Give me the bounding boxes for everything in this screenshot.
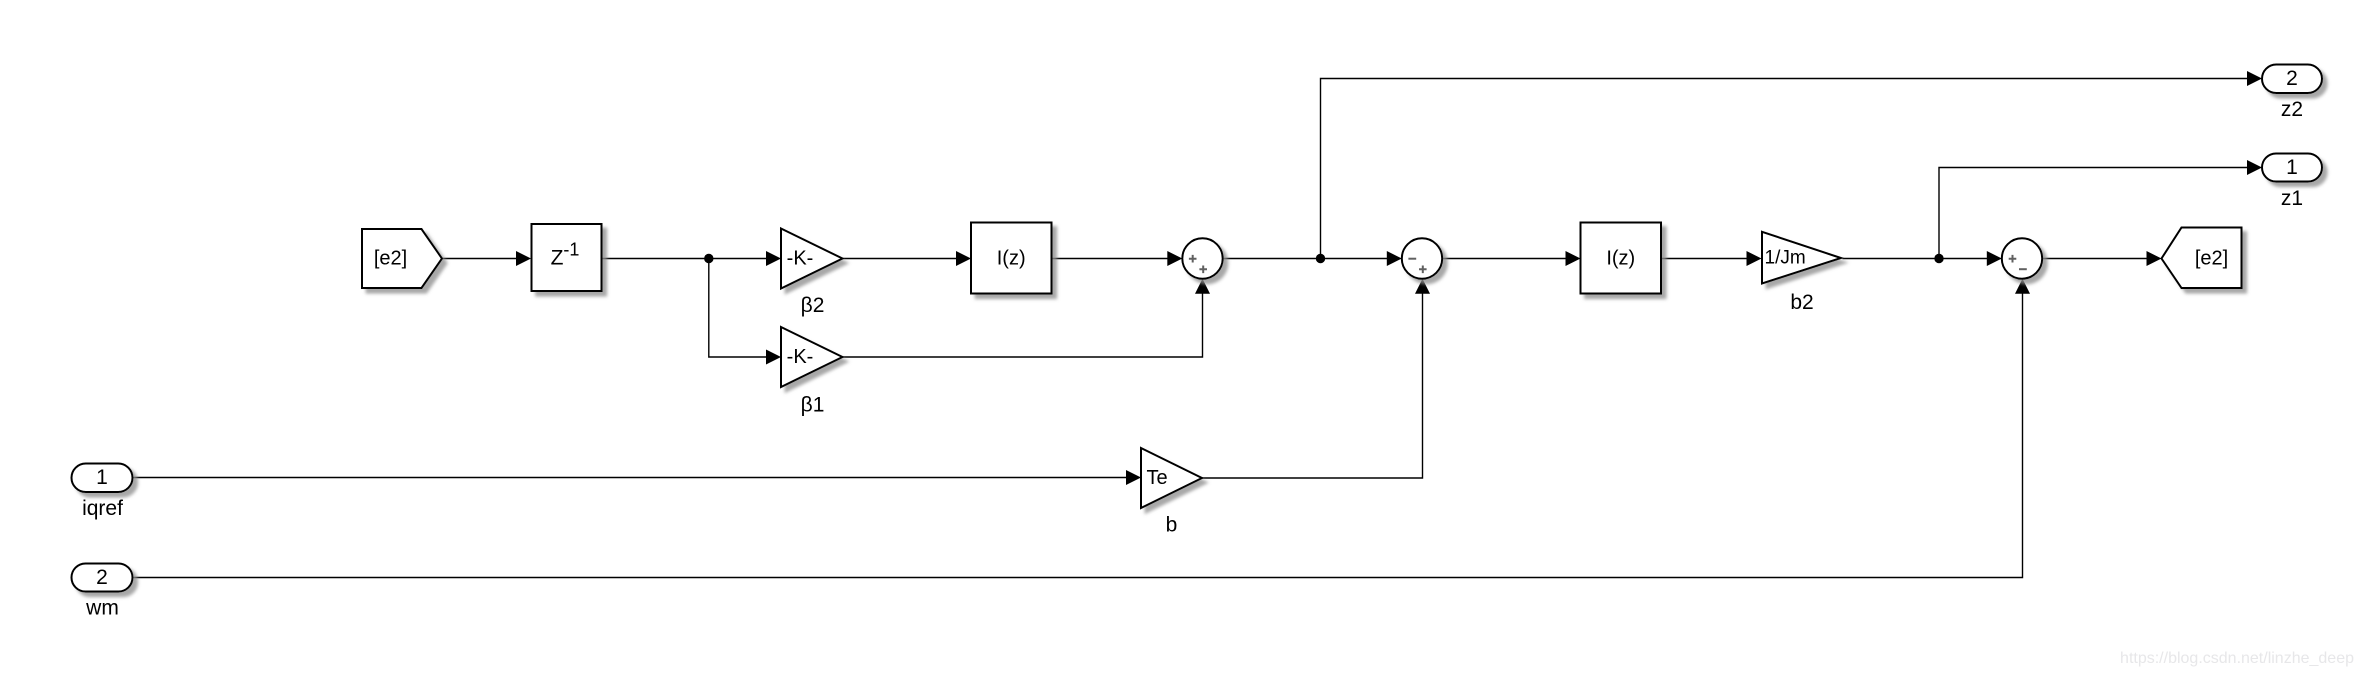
wire sum3 to Goto [e2]: [2042, 251, 2161, 266]
svg-text:1: 1: [2286, 156, 2298, 179]
wire From [e2] to unit delay: [442, 251, 531, 266]
svg-text:β2: β2: [801, 294, 825, 317]
wire sum1 to sum2 with branch junction: [1223, 251, 1402, 266]
From tag [e2]: [362, 229, 442, 288]
outport 2: [2262, 65, 2322, 94]
wire inport wm to sum3 bottom: [133, 279, 2030, 578]
gain B1 (-K-): [781, 327, 843, 387]
inport 2 wm: [72, 564, 133, 592]
svg-text:β1: β1: [801, 394, 825, 417]
svg-text:z2: z2: [2281, 98, 2303, 121]
svg-text:1/Jm: 1/Jm: [1765, 247, 1806, 268]
sum2 sign plus bottom: [1419, 266, 1427, 274]
svg-text:2: 2: [2286, 67, 2298, 90]
wire unit delay to junction to gain B2: [602, 251, 782, 266]
wire gain B2 to I(z) 1: [843, 251, 972, 266]
discrete integrator I(z) 2: [1581, 223, 1662, 294]
wire I(z) 2 to gain 1/Jm: [1661, 251, 1762, 266]
outport 1: [2262, 154, 2322, 182]
wire sum2 to I(z) 2: [1442, 251, 1580, 266]
junction node z2 branch: [1316, 254, 1325, 263]
gain 1/Jm: [1762, 232, 1841, 284]
svg-text:-K-: -K-: [787, 248, 814, 270]
svg-text:I(z): I(z): [1606, 248, 1635, 270]
gain Te: [1141, 448, 1202, 508]
svg-text:[e2]: [e2]: [2195, 248, 2228, 270]
svg-text:b2: b2: [1790, 291, 1813, 314]
junction node after unit delay: [704, 254, 713, 263]
svg-text:iqref: iqref: [82, 497, 123, 520]
wire branch up to outport z1: [1939, 160, 2262, 259]
inport 1 iqref: [72, 464, 133, 493]
svg-text:1: 1: [96, 466, 108, 489]
Goto tag [e2]: [2162, 228, 2242, 289]
sum1 sign plus left: [1189, 255, 1197, 263]
svg-text:I(z): I(z): [997, 248, 1026, 270]
unit delay block Z^-1: [532, 224, 602, 291]
gain B2 (-K-): [781, 229, 843, 289]
wire gain Te to sum2 bottom: [1202, 279, 1430, 478]
svg-text:[e2]: [e2]: [374, 248, 407, 270]
discrete integrator I(z) 1: [971, 223, 1052, 294]
svg-text:b: b: [1166, 514, 1178, 537]
svg-text:https://blog.csdn.net/linzhe_d: https://blog.csdn.net/linzhe_deep: [2120, 650, 2354, 667]
sum3 sign plus left: [2009, 255, 2017, 263]
sum3 circle +-: [2002, 238, 2042, 278]
wire inport iqref to gain Te: [133, 470, 1141, 485]
svg-text:-K-: -K-: [787, 346, 814, 368]
wire gain B1 to sum1 bottom: [843, 279, 1211, 357]
svg-text:wm: wm: [85, 597, 119, 620]
wire I(z) 1 to sum1: [1052, 251, 1183, 266]
sum1 sign plus bottom: [1199, 266, 1207, 274]
wire branch up to outport z2: [1321, 71, 2263, 259]
svg-text:Te: Te: [1147, 467, 1168, 489]
wire junction down to gain B1: [709, 259, 781, 365]
junction node z1 branch: [1934, 254, 1943, 263]
svg-text:z1: z1: [2281, 187, 2303, 210]
sum3 sign minus bottom: [2019, 268, 2027, 270]
wire gain 1/Jm to sum3 with branch junction: [1843, 251, 2002, 266]
sum2 circle -+: [1402, 238, 1442, 278]
sum1 circle ++: [1182, 238, 1222, 278]
sum2 sign minus left: [1408, 258, 1416, 260]
svg-text:2: 2: [96, 566, 108, 589]
